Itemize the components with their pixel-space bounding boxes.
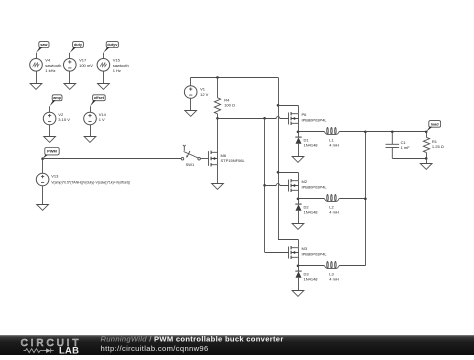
wire R4 bottom lead bbox=[217, 114, 219, 119]
wire M3 source lead bbox=[298, 239, 300, 247]
junction output bus row 1 bbox=[364, 131, 367, 134]
wire PWM node to V13 bbox=[42, 159, 44, 174]
wire gate bus to M2 gate with hop bbox=[265, 184, 289, 186]
wire 12V tap to P6 source bbox=[278, 105, 298, 107]
junction 12V bus stage 1 bbox=[277, 104, 280, 107]
wire node to diode D1 bbox=[298, 132, 300, 137]
wire M2 source lead bbox=[298, 172, 300, 180]
svg-text:offset: offset bbox=[94, 96, 105, 100]
svg-text:dutyv: dutyv bbox=[107, 43, 118, 47]
wire node to inductor L1 bbox=[298, 131, 324, 133]
junction switch node stage 1 bbox=[297, 131, 300, 134]
wire M2 drain to node bbox=[298, 190, 300, 199]
wire node to inductor L3 bbox=[298, 265, 324, 267]
wire to ground bbox=[426, 158, 428, 163]
ground below D3 bbox=[292, 291, 304, 297]
flag duty net label bbox=[70, 42, 84, 53]
flag amp net label bbox=[50, 95, 62, 106]
wire gate bus vertical bbox=[264, 118, 266, 252]
junction R1 top / load flag bbox=[425, 131, 428, 134]
transistor P6 IPB80P03P4L bbox=[289, 112, 299, 125]
wire gate drive rail with hop over 12V bus bbox=[218, 117, 289, 119]
wire P6 source lead bbox=[298, 105, 300, 113]
flag dutyv net label bbox=[103, 42, 118, 53]
voltage source V13 behavioral bbox=[36, 173, 49, 186]
junction switch node stage 2 bbox=[297, 198, 300, 201]
wire node to diode D3 bbox=[298, 266, 300, 271]
wire PWM to SW1 bbox=[43, 158, 182, 160]
wire V1 to ground bbox=[190, 98, 192, 110]
junction gate bus stage 2 bbox=[263, 184, 266, 187]
junction gate rail / gate bus bbox=[263, 117, 266, 120]
ground below V2 bbox=[44, 137, 56, 143]
transistor M6 STP15NF06L bbox=[209, 151, 218, 167]
junction switch node stage 3 bbox=[297, 265, 300, 268]
switch SW1 bbox=[181, 145, 200, 160]
ground below V17 bbox=[64, 84, 76, 90]
wire L2 to output bus bbox=[339, 198, 365, 200]
wire D2 anode to ground bbox=[298, 211, 300, 224]
ground below V1 bbox=[185, 111, 197, 117]
wire C1 to R1 bottom rail bbox=[392, 158, 426, 160]
svg-text:V(amp)*0.5*(TANH((V(duty)-V(sa: V(amp)*0.5*(TANH((V(duty)-V(saw))*1k)+V(… bbox=[51, 180, 130, 184]
wire output bus vertical bbox=[365, 132, 367, 266]
wire amp flag to V2 bbox=[49, 106, 51, 112]
flag load net label bbox=[426, 121, 440, 132]
voltage source V15 sawtooth bbox=[97, 59, 110, 72]
junction R1 bottom / ground bbox=[425, 157, 428, 160]
flag PWM net label bbox=[43, 148, 60, 159]
junction C1 tap bbox=[391, 131, 394, 134]
wire M6 drain up bbox=[217, 118, 219, 152]
resistor R4 bbox=[214, 98, 220, 114]
wire gate bus to M3 gate bbox=[265, 252, 289, 254]
inductor L2 4 mH bbox=[324, 195, 339, 202]
wire V1 to top rail bbox=[190, 77, 192, 85]
ground below D1 bbox=[292, 157, 304, 163]
ground below V13 bbox=[37, 205, 49, 211]
diode D3 1N4148 bbox=[295, 271, 301, 278]
ground below D2 bbox=[292, 224, 304, 230]
wire top 12V rail bbox=[191, 77, 278, 79]
wire SW1 to M6 gate bbox=[200, 158, 208, 160]
voltage source V2 bbox=[43, 112, 56, 125]
wire R1 top lead bbox=[426, 132, 428, 138]
junction output bus row 2 bbox=[364, 198, 367, 201]
wire saw flag to V4 bbox=[36, 53, 38, 59]
wire R4 top lead bbox=[217, 77, 219, 97]
flag offset net label bbox=[90, 95, 105, 106]
svg-text:load: load bbox=[431, 122, 439, 126]
junction 12V bus stage 2 bbox=[277, 171, 280, 174]
node PWM junction bbox=[41, 157, 44, 160]
wire duty flag to V17 bbox=[69, 53, 71, 59]
wire V2 to ground bbox=[49, 125, 51, 137]
wire D3 anode to ground bbox=[298, 278, 300, 291]
voltage source V14 bbox=[84, 112, 97, 125]
voltage source V17 bbox=[64, 59, 77, 72]
ground below V14 bbox=[84, 137, 96, 143]
voltage source V1 12V bbox=[184, 86, 197, 99]
transistor M2 IPB80P03P4L bbox=[289, 179, 299, 192]
inductor L1 4 mH bbox=[324, 127, 339, 134]
wire P6 drain to node bbox=[298, 123, 300, 132]
junction top rail / R4 bbox=[216, 76, 219, 79]
wire V15 to ground bbox=[103, 71, 105, 83]
CircuitLab logo resistor-diode glyph bbox=[24, 349, 44, 353]
wire L3 to output bus bbox=[339, 265, 365, 267]
wire 12V tap to M2 source bbox=[278, 172, 298, 174]
svg-text:amp: amp bbox=[53, 96, 61, 100]
wire 12V vertical bus bbox=[278, 77, 280, 239]
transistor M3 IPB80P03P4L bbox=[289, 246, 299, 259]
wire M3 drain to node bbox=[298, 257, 300, 266]
wire node to inductor L2 bbox=[298, 198, 324, 200]
voltage source V4 sawtooth bbox=[30, 59, 43, 72]
wire V4 to ground bbox=[36, 71, 38, 83]
svg-text:saw: saw bbox=[40, 43, 47, 47]
wire V14 to ground bbox=[90, 125, 92, 137]
svg-text:duty: duty bbox=[74, 43, 83, 47]
ground below V15 bbox=[98, 84, 110, 90]
inductor L3 4 mH bbox=[324, 262, 339, 269]
diode D1 1N4148 bbox=[295, 137, 301, 144]
svg-text:LAB: LAB bbox=[59, 344, 79, 355]
ground below V4 bbox=[30, 84, 42, 90]
wire R1 bottom lead bbox=[426, 153, 428, 159]
wire M6 source to ground bbox=[217, 165, 219, 183]
svg-text:SW1: SW1 bbox=[186, 162, 195, 167]
wire dutyv flag to V15 bbox=[103, 53, 105, 59]
svg-text:V13: V13 bbox=[51, 174, 59, 179]
wire D1 anode to ground bbox=[298, 144, 300, 157]
svg-text:PWM: PWM bbox=[47, 149, 57, 154]
svg-text:RunningWild / PWM controllable: RunningWild / PWM controllable buck conv… bbox=[101, 334, 284, 343]
wire V13 to ground bbox=[42, 186, 44, 205]
wire V17 to ground bbox=[69, 71, 71, 83]
ground below R1 bbox=[420, 164, 432, 170]
resistor R1 bbox=[423, 137, 429, 152]
wire 12V tap to M3 source bbox=[278, 239, 298, 241]
wire L1 to output bus bbox=[339, 131, 365, 133]
capacitor C1 1 mF bbox=[386, 132, 400, 159]
diode D2 1N4148 bbox=[295, 204, 301, 211]
wire node to diode D2 bbox=[298, 199, 300, 204]
wire offset flag to V14 bbox=[90, 106, 92, 112]
junction R4 / gate rail / M6 drain bbox=[216, 117, 219, 120]
svg-text:http://circuitlab.com/cqnnw96: http://circuitlab.com/cqnnw96 bbox=[101, 344, 209, 353]
ground below M6 bbox=[212, 184, 224, 190]
wire output to load bbox=[365, 131, 426, 133]
flag saw net label bbox=[36, 42, 49, 53]
